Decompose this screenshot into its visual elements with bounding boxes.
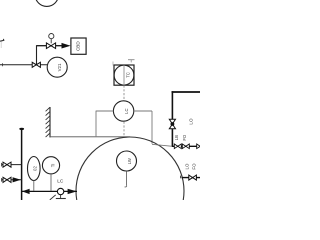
vessel (large circle, clipped) xyxy=(76,137,184,240)
wire: branch riser xyxy=(36,45,38,65)
instrument circle LW in vessel xyxy=(117,151,137,171)
svg-text:V21: V21 xyxy=(57,63,62,71)
tag marks above square xyxy=(113,60,135,66)
wire: blowdown line xyxy=(172,145,200,147)
wire: level tap right xyxy=(134,111,152,144)
wire: drain line lower right xyxy=(181,176,200,179)
svg-text:LB: LB xyxy=(174,135,179,140)
flow arrow into CBD xyxy=(62,43,71,49)
wire: overflow line from wall xyxy=(50,136,130,138)
svg-text:TC: TC xyxy=(125,72,130,78)
off-page connector tick top-left xyxy=(0,39,4,48)
wall with hatching xyxy=(46,107,50,137)
controller circle LC xyxy=(113,101,133,121)
valve V1 with actuator xyxy=(46,34,55,49)
valve V2 xyxy=(32,62,40,67)
svg-text:LC: LC xyxy=(124,109,129,114)
stub S2 with valve and arrow xyxy=(2,177,22,182)
svg-text:CBD: CBD xyxy=(76,41,81,51)
tick at left end xyxy=(2,63,4,66)
arrow into riser xyxy=(22,189,30,194)
wire: feed pipe xyxy=(0,64,47,66)
dip tube below LW xyxy=(125,171,127,187)
svg-text:LW: LW xyxy=(127,158,132,164)
wire: feedwater line bottom xyxy=(22,190,77,192)
svg-text:LO: LO xyxy=(184,163,189,169)
wire: nozzle line to blowdown xyxy=(152,144,172,146)
signal line (dashed) controller to vessel xyxy=(123,122,125,137)
valve V5 xyxy=(182,144,189,149)
signal line (dashed) square to controller xyxy=(123,85,125,100)
svg-text:02: 02 xyxy=(33,166,38,171)
wire: pipe to CBD box xyxy=(37,45,64,47)
svg-text:LO: LO xyxy=(189,118,194,125)
svg-text:LC: LC xyxy=(57,179,64,185)
instrument circle TI xyxy=(42,157,59,191)
stub S1 with valve xyxy=(2,162,22,167)
svg-text:FO: FO xyxy=(191,163,196,170)
svg-text:FO: FO xyxy=(182,134,187,141)
valve V7 xyxy=(189,175,197,180)
instrument square with inscribed circle xyxy=(114,65,134,85)
instrument bubble (top edge, clipped) xyxy=(35,0,58,6)
valve V3 (vertical, ball) xyxy=(169,119,175,129)
wire: level tap left xyxy=(96,111,113,137)
instrument ellipse xyxy=(28,157,41,192)
valve V4 xyxy=(174,144,181,149)
thick steam header L xyxy=(172,91,201,146)
svg-text:TI: TI xyxy=(51,164,56,168)
riser with vent cap xyxy=(19,128,24,200)
arrow into vessel xyxy=(68,189,77,194)
valve V6 (clipped) xyxy=(197,144,204,149)
pump/instrument circle V21 xyxy=(47,57,67,77)
box CBD xyxy=(71,38,86,54)
control valve LC xyxy=(50,188,66,200)
